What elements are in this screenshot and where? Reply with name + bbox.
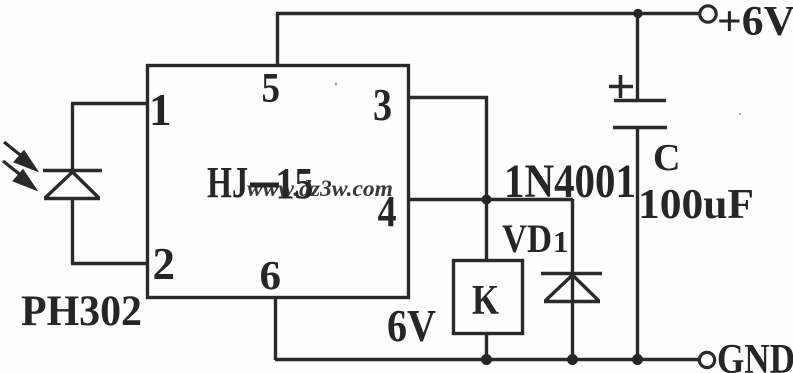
photodiode PH302 xyxy=(43,103,102,264)
wire top bus xyxy=(276,12,700,15)
diode VD1 xyxy=(541,199,602,360)
svg-text:+6V: +6V xyxy=(717,0,793,45)
light arrow 2 xyxy=(3,161,37,191)
terminal GND circle xyxy=(699,352,714,367)
junction node pin4 xyxy=(482,195,492,205)
wire top node to capacitor xyxy=(636,13,639,101)
svg-text:6V: 6V xyxy=(387,301,436,351)
wire pin3 xyxy=(409,96,488,99)
wire ground bus xyxy=(275,358,699,361)
wire capacitor to ground bus xyxy=(636,127,639,360)
svg-text:C: C xyxy=(653,137,680,179)
terminal +6V circle xyxy=(700,6,716,22)
capacitor polarity plus xyxy=(609,75,633,98)
wire relay K to ground bus xyxy=(485,333,488,360)
wire pin1 xyxy=(71,102,148,105)
svg-text:GND: GND xyxy=(717,337,793,373)
svg-text:2: 2 xyxy=(153,238,176,289)
svg-text:6: 6 xyxy=(260,252,282,298)
junction node top (cap to +6V bus) xyxy=(633,9,642,18)
wire node to relay K xyxy=(485,199,488,260)
svg-text:3: 3 xyxy=(373,80,392,130)
junction node VD1 at ground xyxy=(567,354,578,365)
svg-text:1N4001: 1N4001 xyxy=(504,155,636,208)
scan speck near pin5 xyxy=(335,83,338,86)
relay K box xyxy=(454,261,523,334)
junction node K at ground xyxy=(481,354,492,365)
IC U1 HJ-15 box xyxy=(148,66,409,298)
capacitor C plates xyxy=(613,101,667,128)
svg-text:K: K xyxy=(472,278,499,324)
wire pin6 vertical xyxy=(274,297,277,360)
wire pin5 vertical xyxy=(276,13,279,66)
svg-text:1: 1 xyxy=(149,85,172,135)
svg-text:PH302: PH302 xyxy=(21,288,142,335)
wire pin4 xyxy=(409,198,573,201)
svg-text:5: 5 xyxy=(262,66,281,112)
svg-text:HJ: HJ xyxy=(207,158,248,207)
wire pin2 xyxy=(71,262,148,265)
wire pin3 drop vertical xyxy=(485,96,488,199)
junction node C at ground xyxy=(632,354,643,365)
scan speck right of capacitor xyxy=(739,113,741,115)
svg-text:www.dz3w.com: www.dz3w.com xyxy=(247,176,393,201)
svg-text:1: 1 xyxy=(553,224,569,259)
svg-text:100uF: 100uF xyxy=(638,182,754,228)
dash of HJ-15 xyxy=(250,183,279,188)
svg-text:VD: VD xyxy=(502,216,552,261)
light arrow 1 xyxy=(4,142,38,172)
